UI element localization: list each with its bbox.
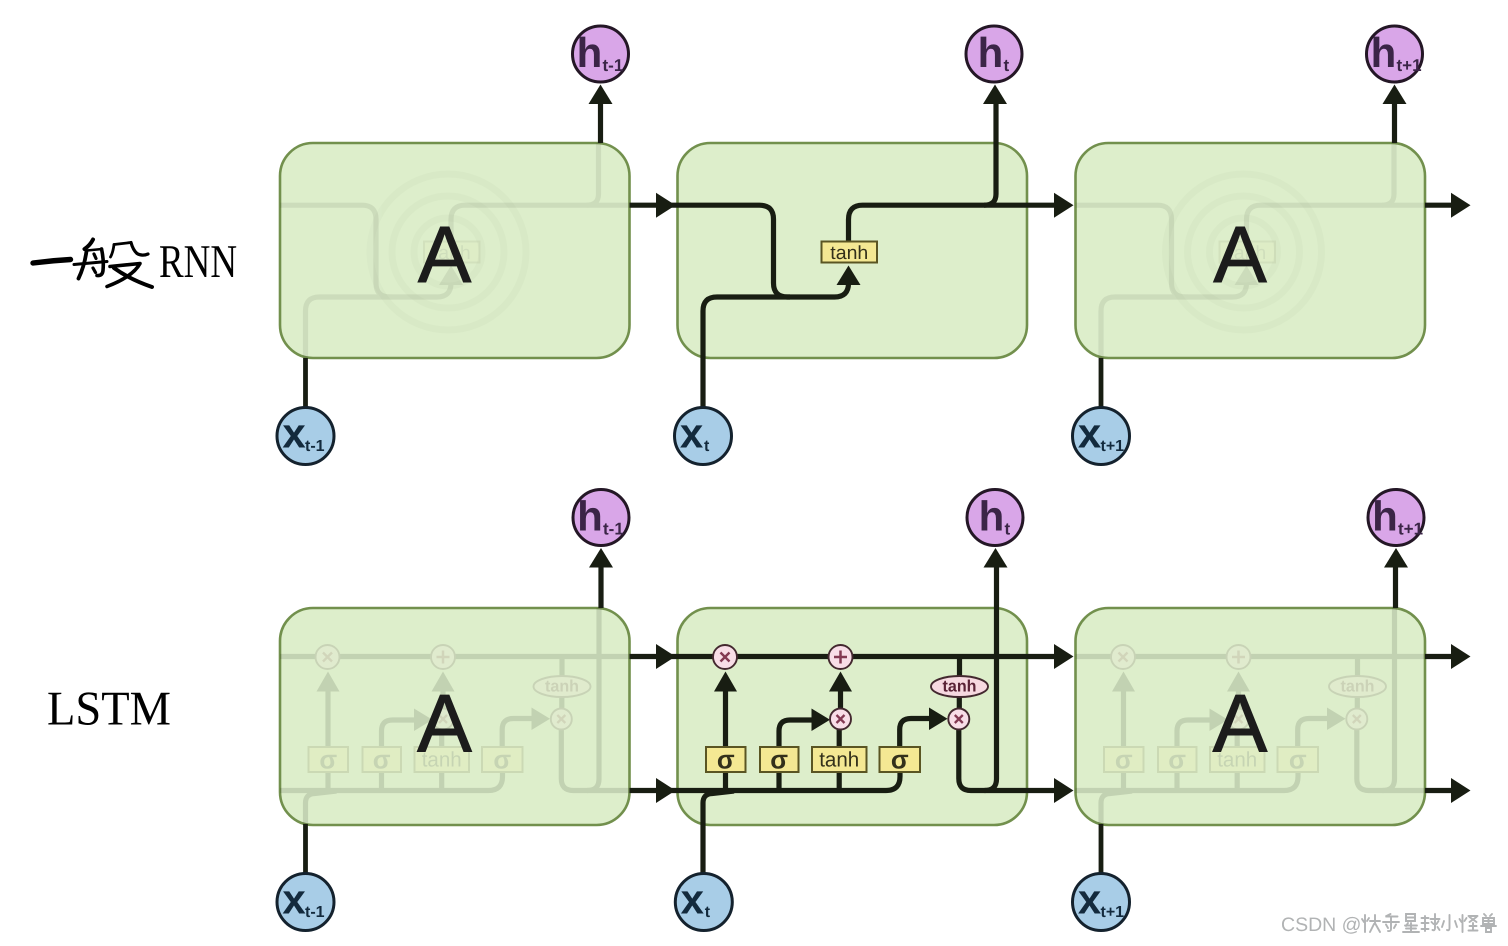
node x(t+1) bottom: [1073, 874, 1130, 931]
wire: x(t+1) input stem bottom row: [1099, 824, 1104, 874]
svg-text:t: t: [1005, 520, 1011, 539]
ghost wiring in left LSTM box: [232, 548, 676, 874]
svg-text:t-1: t-1: [305, 438, 325, 455]
svg-text:h: h: [1371, 29, 1397, 76]
arrowhead to h(t-1) bottom: [589, 548, 613, 568]
hz xiao: [1442, 915, 1457, 930]
hz qiu: [1422, 914, 1440, 931]
svg-text:t+1: t+1: [1101, 904, 1125, 921]
watermark hanzi: [1362, 914, 1496, 932]
wire+arrowhead: LSTM cell state final output: [1425, 654, 1451, 659]
svg-text:h: h: [577, 29, 603, 76]
svg-text:t: t: [1004, 56, 1010, 75]
svg-text:t: t: [704, 438, 710, 455]
svg-text:t: t: [705, 904, 711, 921]
arrowhead to h(t+1) bottom: [1384, 548, 1408, 568]
wire+arrowhead: RNN row final output: [1425, 203, 1451, 208]
faint swirl right RNN box: [1166, 174, 1322, 330]
wire: x(t-1) input stem: [303, 358, 308, 408]
node x(t) top: [675, 408, 732, 465]
LSTM cell box A(t-1): [280, 608, 630, 825]
svg-text:h: h: [979, 493, 1005, 540]
node h(t-1) top: [573, 26, 629, 82]
svg-text:x: x: [681, 876, 705, 923]
wire: x(t+1) input stem: [1099, 358, 1104, 408]
svg-text:x: x: [1078, 876, 1102, 923]
node x(t-1) top: [277, 408, 334, 465]
wire: h(t-1) output stem bottom row: [598, 568, 603, 609]
svg-text:x: x: [282, 876, 306, 923]
arrowhead to h(t+1): [1383, 85, 1407, 105]
svg-text:LSTM: LSTM: [47, 683, 171, 736]
RNN cell box A(t+1): [1076, 143, 1426, 358]
label: 一般RNN (hanzi drawn as paths): [33, 240, 152, 288]
node h(t) top: [966, 26, 1022, 82]
wire+arrowhead: LSTM h final output: [1425, 788, 1451, 793]
hz xing: [1403, 914, 1419, 932]
svg-text:h: h: [1372, 493, 1398, 540]
hz kuai: [1362, 915, 1380, 932]
svg-text:t-1: t-1: [603, 520, 624, 539]
wire: h(t+1) output stem: [1392, 104, 1397, 143]
svg-text:t+1: t+1: [1397, 56, 1422, 75]
node h(t-1) bottom: [573, 490, 629, 546]
hz shou: [1481, 914, 1496, 932]
faint swirl left RNN box: [370, 174, 526, 330]
LSTM cell box A(t+1): [1076, 608, 1426, 825]
node h(t+1) bottom: [1368, 490, 1424, 546]
svg-text:A: A: [1213, 679, 1268, 770]
svg-text:x: x: [680, 410, 704, 457]
svg-text:t-1: t-1: [305, 904, 325, 921]
hz guai: [1460, 915, 1478, 932]
svg-text:t-1: t-1: [603, 56, 624, 75]
svg-text:CSDN @: CSDN @: [1281, 914, 1361, 936]
node x(t+1) top: [1073, 408, 1130, 465]
hanzi BAN: shu part: [111, 245, 115, 258]
LSTM middle cell wiring (black): [630, 548, 1074, 874]
hanzi YI (one): [33, 260, 71, 264]
hz le: [1383, 914, 1399, 931]
RNN cell box A(t): [678, 143, 1028, 358]
wire: x(t-1) input stem bottom row: [303, 824, 308, 874]
wire: h(t+1) output stem bottom row: [1393, 568, 1398, 609]
node x(t-1) bottom: [277, 874, 334, 931]
ghost wiring in left RNN box: [232, 85, 676, 408]
svg-text:A: A: [417, 679, 472, 770]
ghost wiring in right RNN box: [1028, 85, 1472, 408]
svg-text:RNN: RNN: [159, 236, 237, 288]
svg-text:h: h: [978, 29, 1004, 76]
arrowhead to h(t-1): [589, 85, 613, 105]
RNN middle cell wiring (black): [630, 85, 1074, 408]
node x(t) bottom: [675, 874, 732, 931]
svg-text:x: x: [1078, 410, 1102, 457]
svg-text:A: A: [418, 210, 472, 299]
svg-text:t+1: t+1: [1398, 520, 1423, 539]
svg-text:t+1: t+1: [1101, 438, 1125, 455]
node h(t+1) top: [1367, 26, 1423, 82]
hanzi BAN: zhou radical: [74, 240, 152, 288]
ghost wiring in right LSTM box: [1028, 548, 1472, 874]
svg-text:x: x: [282, 410, 306, 457]
svg-text:h: h: [577, 493, 603, 540]
wire: h(t-1) output stem: [598, 104, 603, 143]
svg-text:A: A: [1213, 210, 1267, 299]
node h(t) bottom: [967, 490, 1023, 546]
RNN cell box A(t-1): [280, 143, 630, 358]
LSTM cell box A(t): [678, 608, 1028, 825]
